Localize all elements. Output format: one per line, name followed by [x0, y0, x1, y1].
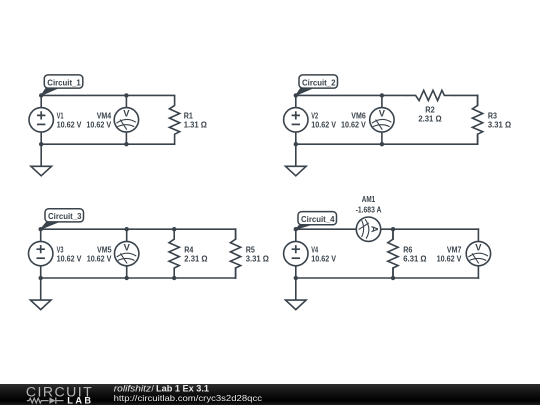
svg-text:Circuit_1: Circuit_1: [47, 77, 81, 87]
wire c4 R6 stub bottom: [392, 268, 394, 278]
node c3 R4 bottom junction: [172, 276, 176, 280]
wire c1 VM4 upper stub: [125, 95, 127, 107]
svg-text:Circuit_4: Circuit_4: [301, 214, 335, 224]
node c1 VM4 top junction: [124, 93, 128, 97]
ground: [286, 144, 307, 176]
wire c2 VM6 lower stub: [381, 132, 383, 144]
svg-text:10.62 V: 10.62 V: [86, 120, 111, 130]
svg-text:rolifshitz: rolifshitz: [114, 383, 152, 393]
node c1 bottom-left junction: [39, 142, 43, 146]
wire c2 left upper: [295, 95, 297, 107]
svg-text:V: V: [123, 108, 130, 119]
wire c1 left upper: [40, 95, 42, 107]
svg-text:3.31 Ω: 3.31 Ω: [488, 120, 512, 130]
svg-text:Lab 1 Ex 3.1: Lab 1 Ex 3.1: [156, 383, 209, 393]
node c2 VM6 bottom junction: [380, 142, 384, 146]
wire c3 VM5 lower stub: [126, 266, 128, 278]
wire c4 bottom: [296, 277, 479, 279]
svg-text:LAB: LAB: [67, 395, 91, 405]
node c3 VM5 top junction: [125, 227, 129, 231]
svg-text:3.31 Ω: 3.31 Ω: [246, 254, 270, 264]
svg-text:CIRCUIT: CIRCUIT: [26, 384, 92, 400]
logo diode: [49, 397, 55, 403]
wire c1 left lower: [40, 132, 42, 144]
wire c4 VM7 upper stub: [477, 229, 479, 241]
node c3 bottom-left junction: [39, 276, 43, 280]
svg-text:2.31 Ω: 2.31 Ω: [418, 114, 442, 124]
svg-text:2.31 Ω: 2.31 Ω: [184, 254, 208, 264]
voltage source V3: [29, 241, 53, 265]
wire c3 VM5 upper stub: [126, 229, 128, 241]
wire c3 R5 lower stub: [235, 268, 237, 278]
svg-text:V: V: [475, 242, 482, 253]
svg-text:1.31 Ω: 1.31 Ω: [184, 120, 208, 130]
node c4 bottom-left junction: [294, 276, 298, 280]
svg-text:10.62 V: 10.62 V: [57, 254, 82, 264]
node c2 bottom-left junction: [294, 142, 298, 146]
voltmeter VM5: [115, 241, 139, 265]
node c2 top-left junction: [294, 93, 298, 97]
wire c1 top: [41, 94, 174, 96]
resistor R5: [230, 229, 240, 278]
ground: [286, 278, 307, 310]
svg-text:10.62 V: 10.62 V: [437, 254, 462, 264]
svg-text:-1.683 A: -1.683 A: [356, 204, 382, 214]
ground: [31, 144, 52, 176]
net flag Circuit_4: [296, 212, 337, 230]
wire c2 right lower stub: [477, 134, 479, 144]
node c4 top-left junction: [294, 227, 298, 231]
node c3 VM5 bottom junction: [125, 276, 129, 280]
node c2 VM6 top junction: [380, 93, 384, 97]
voltmeter VM4: [114, 108, 138, 132]
ground: [30, 278, 51, 310]
node c3 top-left junction: [39, 227, 43, 231]
svg-text:A: A: [370, 226, 381, 233]
svg-text:6.31 Ω: 6.31 Ω: [403, 254, 427, 264]
node c4 R6 top junction: [391, 227, 395, 231]
wire c3 R5 upper stub: [235, 229, 237, 239]
wire c4 VM7 lower stub: [477, 266, 479, 278]
logo resistor zigzag: [27, 398, 49, 403]
wire c2 bottom: [296, 143, 478, 145]
ammeter AM1: [356, 217, 380, 241]
voltage source V2: [284, 108, 308, 132]
wire c2 right upper stub: [477, 95, 479, 105]
wire c1 VM4 lower stub: [125, 132, 127, 144]
voltage source V1: [29, 108, 53, 132]
svg-text:10.62 V: 10.62 V: [311, 254, 336, 264]
wire c4 left upper: [295, 229, 297, 241]
net flag Circuit_1: [41, 75, 83, 96]
wire c4 R6 stub top: [392, 229, 394, 239]
svg-text:10.62 V: 10.62 V: [57, 120, 82, 130]
svg-text:V: V: [379, 108, 386, 119]
svg-text:http://circuitlab.com/cryc3s2d: http://circuitlab.com/cryc3s2d28qcc: [114, 393, 262, 403]
svg-text:10.62 V: 10.62 V: [311, 120, 336, 130]
wire c4 top right segment: [381, 228, 479, 230]
svg-text:10.62 V: 10.62 V: [87, 254, 112, 264]
net flag Circuit_3: [41, 209, 84, 230]
svg-text:Circuit_3: Circuit_3: [48, 211, 82, 221]
resistor R6: [388, 229, 398, 278]
wire c4 left lower: [295, 266, 297, 278]
voltmeter VM6: [370, 108, 394, 132]
resistor R1: [169, 95, 179, 144]
wire c4 top left segment: [296, 228, 357, 230]
wire c2 left lower: [295, 132, 297, 144]
wire c3 left upper: [40, 229, 42, 241]
node c1 VM4 bottom junction: [124, 142, 128, 146]
svg-text:Circuit_2: Circuit_2: [302, 77, 336, 87]
wire c2 top right segment: [454, 94, 477, 96]
wire c3 left lower: [40, 266, 42, 278]
wire c2 top left segment: [296, 94, 406, 96]
wire c3 top: [41, 228, 236, 230]
node c1 top-left junction: [39, 93, 43, 97]
net flag Circuit_2: [296, 75, 338, 96]
wire c1 bottom: [41, 143, 174, 145]
resistor R4: [169, 229, 179, 278]
svg-text:10.62 V: 10.62 V: [341, 120, 366, 130]
svg-text:V: V: [124, 242, 131, 253]
wire c2 VM6 upper stub: [381, 95, 383, 107]
wire c3 bottom: [41, 277, 236, 279]
resistor R3: [472, 95, 482, 144]
voltage source V4: [284, 241, 308, 265]
svg-text:AM1: AM1: [362, 194, 376, 204]
node c4 R6 bottom junction: [391, 276, 395, 280]
node c3 R4 top junction: [172, 227, 176, 231]
voltmeter VM7: [466, 241, 490, 265]
resistor R2: [406, 90, 455, 100]
